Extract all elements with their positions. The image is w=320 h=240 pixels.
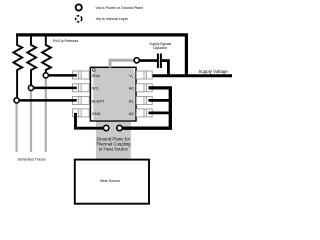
wire: ALERT via to pad [19, 99, 77, 102]
wire: top supply bus with right vertical drop [16, 35, 186, 77]
svg-text:A1: A1 [129, 98, 135, 103]
wire: SDA via to pad [48, 74, 77, 77]
svg-text:A0: A0 [129, 86, 135, 91]
pad: A2 (pin 5) [136, 109, 152, 117]
svg-text:V+: V+ [129, 73, 134, 79]
svg-text:A2: A2 [129, 111, 135, 116]
wire: SCL via to pad [33, 87, 77, 90]
svg-text:Pull Up Resistors: Pull Up Resistors [53, 39, 79, 43]
serial bus trace (internal layer) under R2 [30, 91, 32, 152]
via (V+ trace, to power plane) [134, 58, 139, 63]
svg-text:Supply Voltage: Supply Voltage [199, 69, 229, 74]
serial bus trace (internal layer) under R1 [16, 103, 18, 152]
svg-text:SCL: SCL [92, 86, 101, 91]
pad: GND (pin 4) [72, 109, 89, 117]
wire: A0 to address bus, down to bottom ground wire [123, 88, 171, 128]
IC pin 1 marker [92, 69, 95, 72]
pad: ALERT (pin 3) [72, 96, 89, 104]
svg-text:ALERT: ALERT [92, 98, 105, 103]
svg-text:Via to Internal Layer: Via to Internal Layer [96, 17, 129, 21]
pad: V+ (pin 8) [136, 71, 152, 79]
svg-text:GND: GND [92, 111, 101, 116]
resistor R1 (left pull-up) [13, 34, 22, 98]
via (ground plane, right) [117, 125, 122, 130]
pad: SDA (pin 1) [72, 71, 89, 79]
IC gray body [93, 68, 135, 120]
wire: supply voltage rail [149, 74, 233, 77]
legend via to internal layer symbol (dashed circle) [76, 16, 82, 22]
ground plane band for thermal coupling [96, 119, 131, 161]
resistor R2 (middle pull-up) [27, 34, 36, 86]
legend via to power/ground plane symbol [76, 4, 82, 10]
wire: A2 to address bus [149, 112, 172, 115]
wire: via to bypass capacitor [140, 59, 158, 62]
capacitor C1 left plate [157, 54, 159, 69]
pad: A1 (pin 6) [136, 96, 152, 104]
serial bus trace (internal layer) under R3 [45, 78, 47, 152]
svg-text:Heat Source: Heat Source [100, 179, 121, 183]
capacitor C1 right plate [160, 54, 162, 69]
via (SDA, to internal layer) [43, 73, 48, 78]
pad: SCL (pin 2) [72, 84, 89, 92]
wire: A1 to address bus [149, 99, 172, 102]
svg-text:Via to Power or Ground Plane: Via to Power or Ground Plane [96, 6, 144, 10]
via (ALERT, to internal layer) [14, 98, 19, 103]
svg-text:Serial Bus Traces: Serial Bus Traces [18, 158, 46, 162]
wire: capacitor to supply rail [162, 61, 169, 75]
via (ground plane, left) [104, 125, 109, 130]
pad: A0 (pin 7) [136, 84, 152, 92]
resistor R3 (right pull-up) [42, 34, 51, 74]
via (SCL, to internal layer) [28, 85, 33, 90]
svg-text:SDA: SDA [92, 73, 101, 78]
internal layer trace from IC top to via [110, 60, 134, 67]
svg-text:to Heat Source: to Heat Source [99, 146, 129, 151]
IC outline U1 [90, 67, 136, 121]
wire: GND pin drop to bottom ground wire [76, 113, 104, 128]
svg-text:Capacitor: Capacitor [153, 46, 168, 50]
heat source box [75, 160, 149, 204]
